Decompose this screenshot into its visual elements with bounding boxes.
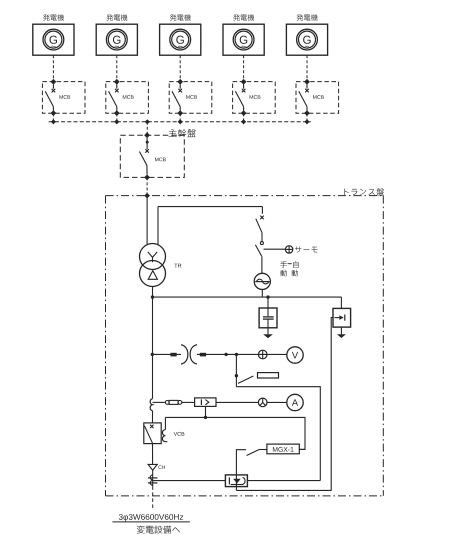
wire MCB4 to bus (dashed) [243,113,245,121]
wire transducer to ammeter [216,401,287,403]
node main MCB top terminal [144,132,150,138]
wire generator G2 to breaker (dashed) [116,55,118,81]
breaker MCB1 blade [45,91,53,106]
coil VCB trip coil [162,430,167,442]
wire MCB5 top lead [306,84,308,88]
node breaker MCB5 top terminal [304,79,310,85]
transformer panel border top (dash-dot) [106,195,384,197]
node feeder entry at panel border [144,193,150,199]
selector label 手動/自動 [280,261,298,276]
wire MCB2 bottom lead [116,107,118,111]
breaker MCB3 enclosure (dashed) [169,82,212,114]
wire CH to drawout terminal [152,470,154,474]
wire MCB4 bottom lead [243,107,245,111]
junction transducer / control loop [204,416,207,419]
breaker MCB2 blade [109,91,117,106]
breaker MCB2 trip cross [115,89,119,93]
cable head CH symbol [148,464,157,470]
transformer TR wye symbol [148,252,157,262]
relay ZCT symbol [229,477,245,484]
breaker MCB5 trip cross [305,89,309,93]
generator G1 label 発電機 [43,14,64,21]
junction bus / MCB2 drop [114,119,119,124]
arrester LA symbol [334,315,344,321]
wire VCB to CH [152,444,154,465]
wire S2 to fan [261,256,263,273]
transducer TD enclosure [195,398,216,407]
fan motor F symbol [254,273,270,289]
generator G3 symbol [170,29,191,50]
generator G2 label 発電機 [106,14,127,21]
wire heater return [236,387,320,481]
transformer panel border bottom (dash-dot) [106,495,384,497]
wire VT to voltmeter [197,353,287,355]
drawout terminal symbol [148,475,158,487]
junction bus / MCB4 drop [241,119,246,124]
test link TL1 [165,400,181,404]
fuse F1 [170,353,176,357]
generator G2 symbol [106,29,127,50]
voltmeter V [287,347,303,363]
heater switch blade [238,376,253,383]
wire main MCB bottom lead [146,165,148,175]
wire MCB3 top lead [179,84,181,88]
arrester LA enclosure [333,308,351,327]
feeder label underline [112,521,189,523]
junction bus / main feeder [145,119,150,124]
wire MGX-1 to control loop [299,448,305,450]
transformer TR secondary winding [140,261,166,287]
main breaker MCB value label [155,158,166,162]
wire MCB1 top lead [52,84,54,88]
wire thermostat branch [264,248,286,250]
relay contact MGX blade [247,449,260,455]
wire control loop to MGX relay [165,417,305,449]
generator G1 symbol [43,29,64,50]
resistor heater H [258,373,279,378]
thermostat contact symbol [285,246,292,253]
generator G3 label 発電機 [170,14,191,21]
wire S1 to S2 [261,233,263,242]
breaker MCB2 enclosure (dashed) [106,82,149,114]
node breaker MCB2 bottom terminal [114,110,120,116]
transformer panel border left (dash-dot) [105,196,107,496]
breaker MCB1 enclosure (dashed) [42,82,85,114]
junction bus / MCB3 drop [178,119,183,124]
wire MCB1 bottom lead [52,107,54,111]
breaker MCB5 value label [313,95,324,99]
feeder destination label 変電設備へ [137,526,180,534]
breaker MCB1 trip cross [52,89,56,93]
generator G2 enclosure [96,24,137,55]
breaker MCB1 value label [59,95,70,99]
fuse F2 [200,353,206,357]
breaker VCB trip cross [150,425,153,428]
test terminal voltmeter circuit [258,350,267,359]
feeder rating label 3φ3W6600V60Hz [119,514,183,521]
wire generator G3 to breaker (dashed) [179,55,181,81]
transformer VT secondary coil [190,345,197,364]
wire generator G4 to breaker (dashed) [243,55,245,81]
test terminal ammeter circuit [258,398,267,407]
wire MCB3 to bus (dashed) [179,113,181,121]
wire LV rail down [152,297,154,399]
junction main MCB lead dot [146,141,149,144]
wire arrester LA to ground [340,327,342,334]
breaker MCB3 trip cross [178,89,182,93]
wire MCB1 to bus (dashed) [52,113,54,121]
junction LV bus / surge capacitor [266,295,269,298]
node breaker MCB4 bottom terminal [241,110,247,116]
disconnect switch S1 cross [260,216,264,220]
wire MCB3 bottom lead [179,107,181,111]
breaker VCB reference label [174,432,185,436]
wire CT to test link [153,401,166,403]
transducer TD symbol [201,399,208,405]
wire bus to capacitor C1 [267,297,269,316]
wire TR tap to fan branch [158,207,262,246]
breaker MCB4 blade [235,91,243,106]
wire heater drop [235,354,237,386]
wire generator G1 to breaker (dashed) [52,55,54,81]
wire rail to VCB [152,411,154,423]
breaker MCB5 enclosure (dashed) [296,82,339,114]
breaker MCB3 blade [172,91,180,106]
transformer TR delta symbol [148,271,157,280]
wire MCB4 top lead [243,84,245,88]
generator G5 symbol [297,29,318,50]
transformer panel label トランス盤 [344,188,383,195]
breaker MCB5 blade [299,91,307,106]
wire main panel to transformer panel (dashed) [146,177,148,195]
capacitor C1 plates [263,317,274,319]
breaker MCB4 enclosure (dashed) [233,82,276,114]
generator G1 enclosure [33,24,74,55]
main breaker MCB blade [139,152,147,166]
wire MGX contact riser [236,450,246,491]
generator G4 enclosure [223,24,264,55]
relay MGX-1 reference label [273,447,294,452]
wire test link to transducer [182,401,195,403]
wire terminal to ZCT [153,480,226,482]
relay MGX-1 enclosure [267,444,299,454]
bus transformer secondary [153,296,342,298]
node breaker MCB1 top terminal [51,79,57,85]
breaker VCB enclosure [144,423,161,444]
wire fan to LV bus [261,290,263,298]
switch S2 blade [255,245,261,257]
node breaker MCB5 bottom terminal [304,110,310,116]
wire MCB5 to bus (dashed) [306,113,308,121]
node switch S2 contact [260,242,263,245]
thermostat label サーモ [295,246,317,252]
breaker VCB blade [144,426,152,444]
breaker MCB4 trip cross [242,89,246,93]
wire bus to arrester LA [340,297,342,308]
node breaker MCB3 bottom terminal [177,110,183,116]
junction rail / voltmeter branch [151,353,154,356]
junction LV bus / TR [151,295,154,298]
node breaker MCB2 top terminal [114,79,120,85]
node breaker MCB1 bottom terminal [51,110,57,116]
node main MCB bottom terminal [144,175,150,181]
ground capacitor branch [263,334,273,338]
wire feeder to TR primary [146,196,148,246]
breaker MCB4 value label [250,95,261,99]
wire main MCB top lead [146,138,148,149]
breaker MCB2 value label [123,95,134,99]
generator G3 enclosure [160,24,201,55]
wire TR secondary to LV bus [152,287,154,298]
capacitor C1 enclosure [259,308,277,328]
wire capacitor C1 to ground [267,319,269,334]
wire control loop to VCB coil [164,417,166,429]
generator G4 symbol [233,29,254,50]
wire outgoing feeder (dashed) [152,486,154,510]
junction voltmeter row node a [224,353,227,356]
junction bus / MCB5 drop [304,119,309,124]
wire ZCT to heater return riser [247,480,320,482]
generator G5 label 発電機 [297,14,318,21]
relay ZCT enclosure [225,475,247,487]
node breaker MCB4 top terminal [241,79,247,85]
wire bus to main panel (dashed) [146,122,148,135]
node breaker MCB3 top terminal [177,79,183,85]
breaker MCB3 value label [186,95,197,99]
wire transducer output drop [205,406,207,417]
generator G5 enclosure [286,24,327,55]
bus generator paralleling bus (dashed) [49,121,311,123]
wire rail to VT [153,353,182,355]
ammeter A [287,394,303,410]
junction bus / MCB1 drop [51,119,56,124]
junction voltmeter row / heater drop [235,353,238,356]
generator G4 label 発電機 [233,14,254,21]
ground arrester branch [337,334,346,338]
wire arrester tap to ground-relay return [236,318,333,491]
transformer panel border right (dash-dot) [382,196,384,496]
main breaker MCB trip cross [145,149,149,153]
transformer TR primary winding [140,244,166,270]
cable head CH label [158,465,165,469]
wire contact to MGX-1 coil [259,449,267,451]
wire MCB5 bottom lead [306,107,308,111]
transformer TR reference label [174,264,181,268]
junction heater switch pivot [235,374,238,377]
wire generator G5 to breaker (dashed) [306,55,308,81]
main panel enclosure (dashed) [120,135,184,177]
disconnect switch S1 blade [256,219,262,233]
transformer VT primary coil [181,345,188,364]
transformer CT on rail [150,399,152,411]
wire MCB2 to bus (dashed) [116,113,118,121]
main panel label 主幹盤 [169,129,196,137]
wire MCB2 top lead [116,84,118,88]
